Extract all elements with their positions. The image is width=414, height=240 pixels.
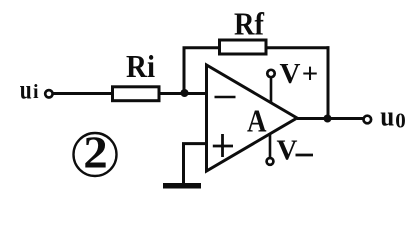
svg-text:u: u xyxy=(20,74,32,104)
svg-text:Rf: Rf xyxy=(234,6,264,42)
svg-text:V: V xyxy=(280,58,301,90)
svg-text:u: u xyxy=(380,102,394,133)
svg-text:+: + xyxy=(302,58,319,90)
svg-text:i: i xyxy=(33,81,39,103)
svg-text:0: 0 xyxy=(395,108,406,132)
svg-text:Ri: Ri xyxy=(126,48,155,84)
svg-text:2: 2 xyxy=(83,128,108,178)
svg-text:A: A xyxy=(247,103,267,139)
svg-text:V: V xyxy=(277,135,298,167)
